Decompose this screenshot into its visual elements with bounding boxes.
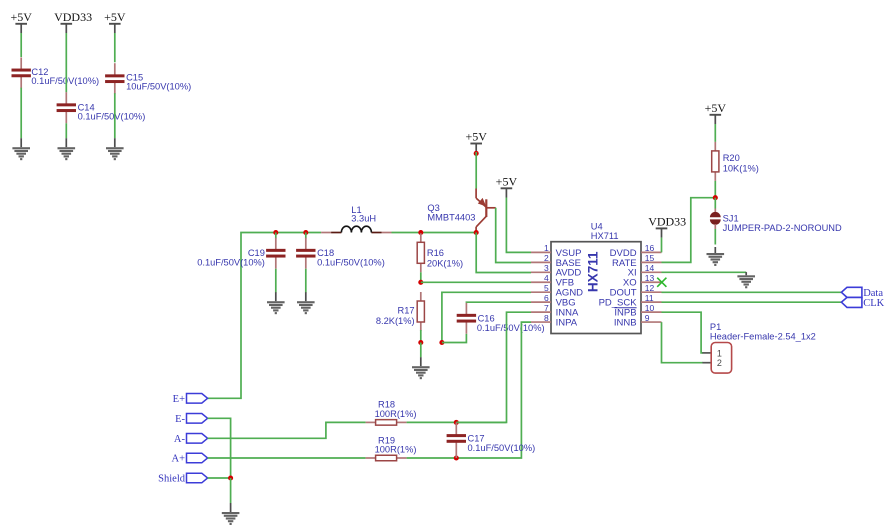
svg-text:20K(1%): 20K(1%) bbox=[427, 259, 463, 269]
power +5V (C15 rail) bbox=[104, 10, 126, 33]
wire C12 top bbox=[20, 33, 22, 57]
op-amp U4 HX711 body bbox=[551, 242, 641, 334]
svg-text:8.2K(1%): 8.2K(1%) bbox=[376, 316, 415, 326]
pin 3 name AVDD bbox=[556, 268, 582, 279]
pin 4 name VFB bbox=[556, 278, 574, 289]
svg-text:100R(1%): 100R(1%) bbox=[375, 409, 417, 419]
ground (C15) bbox=[106, 138, 124, 160]
pin 5 name AGND bbox=[556, 288, 584, 299]
svg-text:10: 10 bbox=[645, 303, 655, 313]
junction R17/AGND/C16 bbox=[418, 340, 423, 345]
svg-text:INPA: INPA bbox=[556, 317, 578, 328]
wire C15 bottom bbox=[114, 93, 116, 138]
pin 12 DOUT stub bbox=[641, 291, 662, 293]
header P1 bbox=[702, 343, 731, 374]
pin 6 number bbox=[544, 293, 549, 303]
svg-text:11: 11 bbox=[645, 293, 654, 303]
flag E+ bbox=[173, 394, 208, 405]
svg-text:14: 14 bbox=[645, 263, 655, 273]
flag A+ bbox=[171, 453, 207, 464]
junction C19/rail bbox=[273, 230, 278, 235]
capacitor C14 bbox=[57, 92, 76, 123]
pin 11 name PD_SCK bbox=[599, 298, 638, 309]
ground (XI) bbox=[737, 272, 755, 288]
svg-text:10uF/50V(10%): 10uF/50V(10%) bbox=[126, 82, 191, 92]
svg-text:0.1uF/50V(10%): 0.1uF/50V(10%) bbox=[317, 258, 385, 268]
pin 14 name XI bbox=[628, 268, 637, 279]
svg-text:0.1uF/50V(10%): 0.1uF/50V(10%) bbox=[78, 111, 146, 121]
ground (C19) bbox=[267, 292, 285, 314]
pin 2 name BASE bbox=[556, 258, 581, 269]
svg-text:4: 4 bbox=[544, 273, 549, 283]
wire DOUT to Data flag bbox=[662, 291, 842, 293]
pin 8 name INPA bbox=[556, 317, 578, 328]
label HX711 vertical bbox=[586, 251, 601, 292]
svg-text:7: 7 bbox=[544, 303, 549, 313]
label R17 bbox=[376, 306, 415, 326]
svg-text:0.1uF/50V(10%): 0.1uF/50V(10%) bbox=[468, 443, 536, 453]
svg-text:VDD33: VDD33 bbox=[648, 214, 686, 228]
wire INNB pin9 to P1-2 bbox=[662, 322, 704, 363]
svg-text:2: 2 bbox=[544, 253, 549, 263]
wire VDD33 to pin16 bbox=[661, 238, 663, 253]
label SJ1 bbox=[723, 213, 842, 232]
wire C16 top to VBG pin6 bbox=[466, 301, 531, 304]
svg-text:R16: R16 bbox=[427, 248, 444, 258]
resistor R20 bbox=[712, 142, 719, 181]
svg-text:+5V: +5V bbox=[496, 174, 518, 188]
svg-text:CLK: CLK bbox=[863, 298, 884, 309]
ground (Shield) bbox=[222, 503, 240, 525]
wire INPB pin10 to P1-1 bbox=[662, 312, 704, 353]
wire C15 top bbox=[114, 33, 116, 62]
wire XI pin14 to ground bbox=[662, 271, 747, 273]
wire RATE pin15 to R20 node bbox=[662, 198, 716, 263]
wire C18 top bbox=[305, 233, 307, 239]
junction collector/rail/AVDD bbox=[474, 230, 479, 235]
label C16 bbox=[477, 313, 545, 332]
pin 7 INNA stub bbox=[531, 311, 551, 313]
wire C17 node to riser bbox=[456, 421, 506, 423]
svg-text:+5V: +5V bbox=[705, 101, 727, 115]
capacitor C19 bbox=[266, 238, 285, 269]
wire R16-R17 node bbox=[420, 272, 422, 282]
svg-text:HX711: HX711 bbox=[586, 251, 601, 292]
wire A- to R18 bbox=[208, 422, 366, 438]
pin 12 number bbox=[645, 283, 655, 293]
wire R17 bottom bbox=[420, 330, 422, 343]
svg-text:P1: P1 bbox=[710, 322, 721, 332]
pin 13 XO stub bbox=[641, 281, 662, 283]
pin 8 INPA stub bbox=[531, 321, 551, 323]
pin 2 BASE stub bbox=[531, 261, 551, 263]
power +5V (C12 rail) bbox=[10, 10, 32, 33]
svg-text:5: 5 bbox=[544, 283, 549, 293]
svg-text:R20: R20 bbox=[723, 153, 740, 163]
svg-text:1: 1 bbox=[544, 243, 549, 253]
label C17 bbox=[468, 434, 536, 453]
svg-text:HX711: HX711 bbox=[591, 231, 619, 241]
junction at +5V Q3 bbox=[474, 151, 479, 156]
pin 3 number bbox=[544, 263, 549, 273]
svg-text:U4: U4 bbox=[591, 221, 603, 231]
wire SJ1 top lead bbox=[714, 198, 716, 209]
wire C18 bottom bbox=[305, 269, 307, 293]
pin 6 name VBG bbox=[556, 298, 576, 309]
svg-text:6: 6 bbox=[544, 293, 549, 303]
svg-text:100R(1%): 100R(1%) bbox=[375, 445, 417, 455]
svg-text:MMBT4403: MMBT4403 bbox=[427, 213, 475, 223]
resistor R18 bbox=[366, 420, 407, 426]
label Q3 bbox=[427, 203, 475, 222]
transistor Q3 bbox=[476, 189, 496, 234]
flag A- bbox=[174, 434, 208, 445]
label R20 bbox=[723, 153, 759, 174]
junction R19/C17/INPA bbox=[454, 455, 459, 460]
power +5V (Q3 emitter) bbox=[465, 130, 487, 153]
wire C12 bottom bbox=[20, 88, 22, 139]
svg-text:16: 16 bbox=[645, 243, 655, 253]
flag Shield bbox=[158, 473, 207, 484]
pin 6 VBG stub bbox=[531, 301, 551, 303]
wire C16 bottom run bbox=[442, 334, 467, 343]
svg-text:0.1uF/50V(10%): 0.1uF/50V(10%) bbox=[197, 258, 265, 268]
pin 10 number bbox=[645, 303, 655, 313]
svg-text:+5V: +5V bbox=[104, 10, 126, 24]
svg-text:2: 2 bbox=[717, 358, 722, 368]
pin 11 PD_SCK stub bbox=[641, 301, 662, 303]
junction Shield bbox=[228, 475, 233, 480]
svg-text:Shield: Shield bbox=[158, 474, 186, 485]
pin 13 number bbox=[645, 273, 655, 283]
wire C19 bottom bbox=[275, 269, 277, 293]
wire R19 to C17 node bbox=[407, 457, 457, 459]
label C18 bbox=[317, 248, 385, 267]
wire to ground below R17 bbox=[420, 343, 422, 358]
pin 9 INNB stub bbox=[641, 321, 662, 323]
svg-text:0.1uF/50V(10%): 0.1uF/50V(10%) bbox=[477, 323, 545, 333]
pin 9 name INNB bbox=[614, 317, 637, 328]
label L1 bbox=[351, 205, 376, 224]
wire E- to Shield node bbox=[208, 418, 231, 478]
capacitor C18 bbox=[296, 238, 315, 269]
capacitor C12 bbox=[12, 57, 31, 88]
wire R20 bottom bbox=[714, 181, 716, 198]
pin 14 number bbox=[645, 263, 655, 273]
label R16 bbox=[427, 248, 463, 269]
wire SJ1 bottom bbox=[714, 229, 716, 245]
wire C14 top bbox=[65, 33, 67, 92]
ground (SJ1) bbox=[707, 247, 725, 266]
power +5V (R20) bbox=[705, 101, 727, 124]
svg-text:9: 9 bbox=[645, 313, 650, 323]
svg-text:A+: A+ bbox=[171, 454, 185, 465]
wire C19 top bbox=[275, 233, 277, 239]
pin 16 name DVDD bbox=[610, 248, 637, 259]
wire rail L1 to Q3 bbox=[392, 232, 477, 234]
svg-text:15: 15 bbox=[645, 253, 655, 263]
pin 5 AGND stub bbox=[531, 291, 551, 293]
capacitor C16 bbox=[457, 303, 476, 334]
pin 9 number bbox=[645, 313, 650, 323]
pin 4 number bbox=[544, 273, 549, 283]
wire A+ to R19 bbox=[208, 457, 366, 459]
svg-text:+5V: +5V bbox=[10, 10, 32, 24]
wire R18 to C17 node bbox=[407, 421, 457, 423]
wire INPA pin8 riser bbox=[456, 322, 531, 458]
pin 5 number bbox=[544, 283, 549, 293]
label C19 bbox=[197, 248, 265, 267]
jumper SJ1 bbox=[710, 209, 721, 230]
pin 15 name RATE bbox=[612, 258, 637, 269]
svg-text:E-: E- bbox=[175, 414, 185, 425]
capacitor C17 bbox=[447, 422, 466, 458]
wire emitter bbox=[475, 152, 477, 189]
svg-text:Header-Female-2.54_1x2: Header-Female-2.54_1x2 bbox=[710, 331, 816, 341]
ground (C18) bbox=[297, 292, 315, 314]
svg-text:10K(1%): 10K(1%) bbox=[723, 164, 759, 174]
pin 7 name INNA bbox=[556, 308, 579, 319]
junction VFB node bbox=[418, 280, 423, 285]
svg-text:INNB: INNB bbox=[614, 317, 637, 328]
svg-text:3: 3 bbox=[544, 263, 549, 273]
junction C18/rail bbox=[303, 230, 308, 235]
pin 1 number bbox=[544, 243, 549, 253]
wire PD_SCK to CLK flag bbox=[662, 301, 842, 303]
pin 3 AVDD stub bbox=[531, 271, 551, 273]
pin 7 number bbox=[544, 303, 549, 313]
svg-text:E+: E+ bbox=[173, 394, 185, 405]
pin 10 name INPB bbox=[614, 308, 636, 319]
svg-text:A-: A- bbox=[174, 434, 186, 445]
label R18 bbox=[375, 400, 417, 419]
junction R16/rail bbox=[418, 230, 423, 235]
svg-text:R17: R17 bbox=[398, 306, 415, 316]
power +5V (VSUP) bbox=[496, 174, 518, 197]
wire C14 bottom bbox=[65, 123, 67, 138]
wire base to BASE pin2 bbox=[496, 208, 531, 263]
junction R18/C17/INNA bbox=[454, 420, 459, 425]
pin 11 number bbox=[645, 293, 654, 303]
power VDD33 (DVDD) bbox=[648, 214, 686, 237]
svg-text:+5V: +5V bbox=[465, 130, 487, 144]
capacitor C15 bbox=[105, 63, 124, 94]
pin 14 XI stub bbox=[641, 271, 662, 273]
pin 15 RATE stub bbox=[641, 261, 662, 263]
wire +5V to VSUP pin1 bbox=[506, 198, 531, 253]
label C15 bbox=[126, 73, 191, 92]
resistor R16 bbox=[417, 233, 424, 272]
svg-text:12: 12 bbox=[645, 283, 655, 293]
wire AVDD rail / E+ riser bbox=[208, 233, 322, 399]
pin 1 name VSUP bbox=[556, 248, 582, 259]
pin 12 name DOUT bbox=[610, 288, 637, 299]
flag Data bbox=[841, 287, 883, 299]
wire Shield to ground bbox=[230, 478, 232, 503]
pin 10 INPB stub bbox=[641, 311, 662, 313]
label P1 bbox=[710, 322, 816, 342]
resistor R17 bbox=[417, 292, 424, 331]
pin 4 VFB stub bbox=[531, 281, 551, 283]
svg-text:1: 1 bbox=[717, 348, 722, 358]
svg-text:JUMPER-PAD-2-NOROUND: JUMPER-PAD-2-NOROUND bbox=[723, 223, 842, 233]
junction AGND/C16 bottom bbox=[439, 340, 444, 345]
pin 15 number bbox=[645, 253, 655, 263]
inductor L1 bbox=[321, 226, 391, 232]
no-connect X on pin 13 XO bbox=[657, 278, 666, 287]
flag CLK bbox=[841, 297, 884, 309]
ground (C12) bbox=[12, 138, 30, 160]
pin 16 number bbox=[645, 243, 655, 253]
pin 13 name XO bbox=[623, 278, 637, 289]
resistor R19 bbox=[366, 455, 407, 461]
ground (C14) bbox=[58, 138, 76, 160]
svg-text:8: 8 bbox=[544, 313, 549, 323]
pin 16 DVDD stub bbox=[641, 251, 662, 253]
wire R20 top bbox=[714, 124, 716, 142]
junction R20/RATE/SJ1 bbox=[713, 195, 718, 200]
label C14 bbox=[78, 103, 146, 122]
pin 1 VSUP stub bbox=[531, 251, 551, 253]
wire INNA pin7 riser bbox=[456, 312, 531, 422]
svg-text:3.3uH: 3.3uH bbox=[351, 214, 376, 224]
label R19 bbox=[375, 435, 417, 454]
label U4 bbox=[591, 221, 619, 241]
svg-text:13: 13 bbox=[645, 273, 655, 283]
wire VFB to pin4 bbox=[421, 281, 531, 283]
svg-text:VDD33: VDD33 bbox=[54, 10, 92, 24]
flag E- bbox=[175, 414, 208, 425]
label C12 bbox=[31, 67, 99, 86]
wire AGND pin5 bbox=[442, 292, 531, 342]
wire Shield flag bbox=[208, 477, 231, 479]
pin 2 number bbox=[544, 253, 549, 263]
pin 8 number bbox=[544, 313, 549, 323]
ground (R17/C16) bbox=[412, 357, 430, 379]
wire collector junction to AVDD pin3 bbox=[476, 233, 531, 273]
svg-text:0.1uF/50V(10%): 0.1uF/50V(10%) bbox=[31, 76, 99, 86]
power VDD33 (C14 rail) bbox=[54, 10, 92, 33]
